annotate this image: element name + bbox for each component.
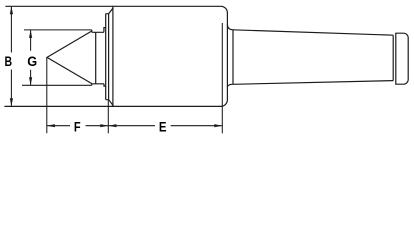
ext line E right bbox=[221, 23, 223, 133]
ext line F left (from apex) bbox=[46, 58, 48, 134]
arrow E right bbox=[214, 124, 222, 127]
chamfer bottom front bbox=[109, 100, 114, 106]
label F bbox=[74, 119, 81, 135]
svg-text:G: G bbox=[27, 53, 37, 69]
taper top edge bbox=[233, 30, 393, 35]
label E bbox=[159, 118, 167, 134]
body outline bbox=[113, 6, 227, 106]
arrow F left bbox=[47, 124, 55, 127]
arrow B up bbox=[10, 6, 13, 14]
taper end face bbox=[392, 35, 394, 80]
arrow F right bbox=[100, 124, 108, 127]
ext line G bottom bbox=[22, 84, 92, 86]
label G bbox=[27, 53, 37, 69]
chamfer top front bbox=[109, 8, 113, 14]
ext line G top bbox=[24, 29, 92, 31]
label B bbox=[4, 54, 12, 70]
arrow E left bbox=[108, 124, 116, 127]
dim line B bbox=[10, 6, 12, 106]
taper bottom edge bbox=[233, 81, 393, 85]
dim line G bbox=[30, 30, 32, 85]
svg-text:E: E bbox=[159, 118, 167, 134]
seal washer ring bbox=[104, 28, 106, 87]
wire top extension line B bbox=[5, 5, 113, 7]
bearing cap ring bbox=[106, 14, 109, 100]
fillet top bbox=[227, 25, 233, 30]
arrow G down bbox=[29, 77, 32, 85]
svg-text:F: F bbox=[74, 119, 81, 135]
fillet bottom bbox=[227, 84, 233, 86]
cone point bbox=[47, 31, 92, 84]
dim line F bbox=[47, 125, 108, 127]
arrow G up bbox=[29, 30, 32, 38]
ext line F/E middle bbox=[107, 100, 109, 133]
arrow B down bbox=[10, 98, 13, 106]
shoulder face bbox=[232, 30, 234, 84]
svg-text:B: B bbox=[4, 54, 12, 70]
wire bottom extension line B bbox=[4, 105, 113, 107]
pilot cylinder G bbox=[92, 30, 104, 85]
dim line E bbox=[108, 125, 222, 127]
tang bbox=[396, 33, 408, 84]
